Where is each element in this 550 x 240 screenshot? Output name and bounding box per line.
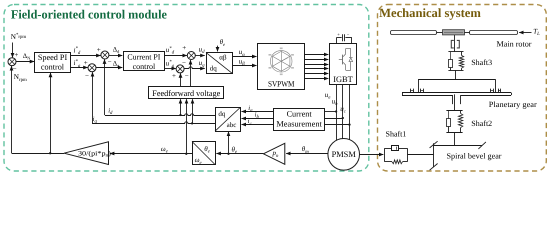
svg-text:−: − — [182, 59, 186, 67]
svg-text:+: + — [97, 46, 101, 54]
svg-text:αβ: αβ — [219, 53, 227, 61]
svg-text:Main rotor: Main rotor — [497, 40, 532, 49]
svg-text:control: control — [133, 62, 156, 71]
svg-text:−: − — [185, 72, 189, 80]
svg-text:Current PI: Current PI — [127, 53, 160, 62]
svg-text:dq: dq — [218, 110, 226, 118]
svg-text:control: control — [41, 63, 65, 72]
svg-text:−: − — [108, 58, 112, 66]
svg-text:+: + — [337, 32, 340, 37]
svg-text:Mechanical system: Mechanical system — [379, 6, 481, 20]
svg-text:+: + — [14, 51, 18, 59]
svg-text:−: − — [85, 72, 89, 80]
svg-text:−: − — [13, 64, 17, 72]
svg-text:+: + — [84, 59, 88, 67]
svg-text:abc: abc — [227, 121, 237, 129]
svg-text:Shaft3: Shaft3 — [471, 58, 492, 67]
svg-text:Feedforward voltage: Feedforward voltage — [152, 89, 220, 98]
svg-text:PMSM: PMSM — [332, 150, 357, 159]
svg-text:Planetary gear: Planetary gear — [489, 100, 537, 109]
svg-text:Field-oriented control module: Field-oriented control module — [11, 7, 167, 21]
svg-text:SVPWM: SVPWM — [268, 80, 295, 89]
svg-text:Spiral bevel gear: Spiral bevel gear — [447, 152, 502, 161]
svg-text:+: + — [182, 44, 186, 52]
svg-text:Speed PI: Speed PI — [38, 53, 68, 62]
svg-text:+: + — [172, 72, 176, 80]
svg-text:Measurement: Measurement — [276, 119, 322, 128]
svg-text:−: − — [347, 32, 350, 37]
svg-text:Current: Current — [287, 109, 313, 118]
svg-text:IGBT: IGBT — [333, 75, 353, 84]
svg-text:Shaft1: Shaft1 — [386, 129, 407, 138]
svg-text:Shaft2: Shaft2 — [471, 119, 492, 128]
svg-text:dq: dq — [210, 65, 218, 73]
